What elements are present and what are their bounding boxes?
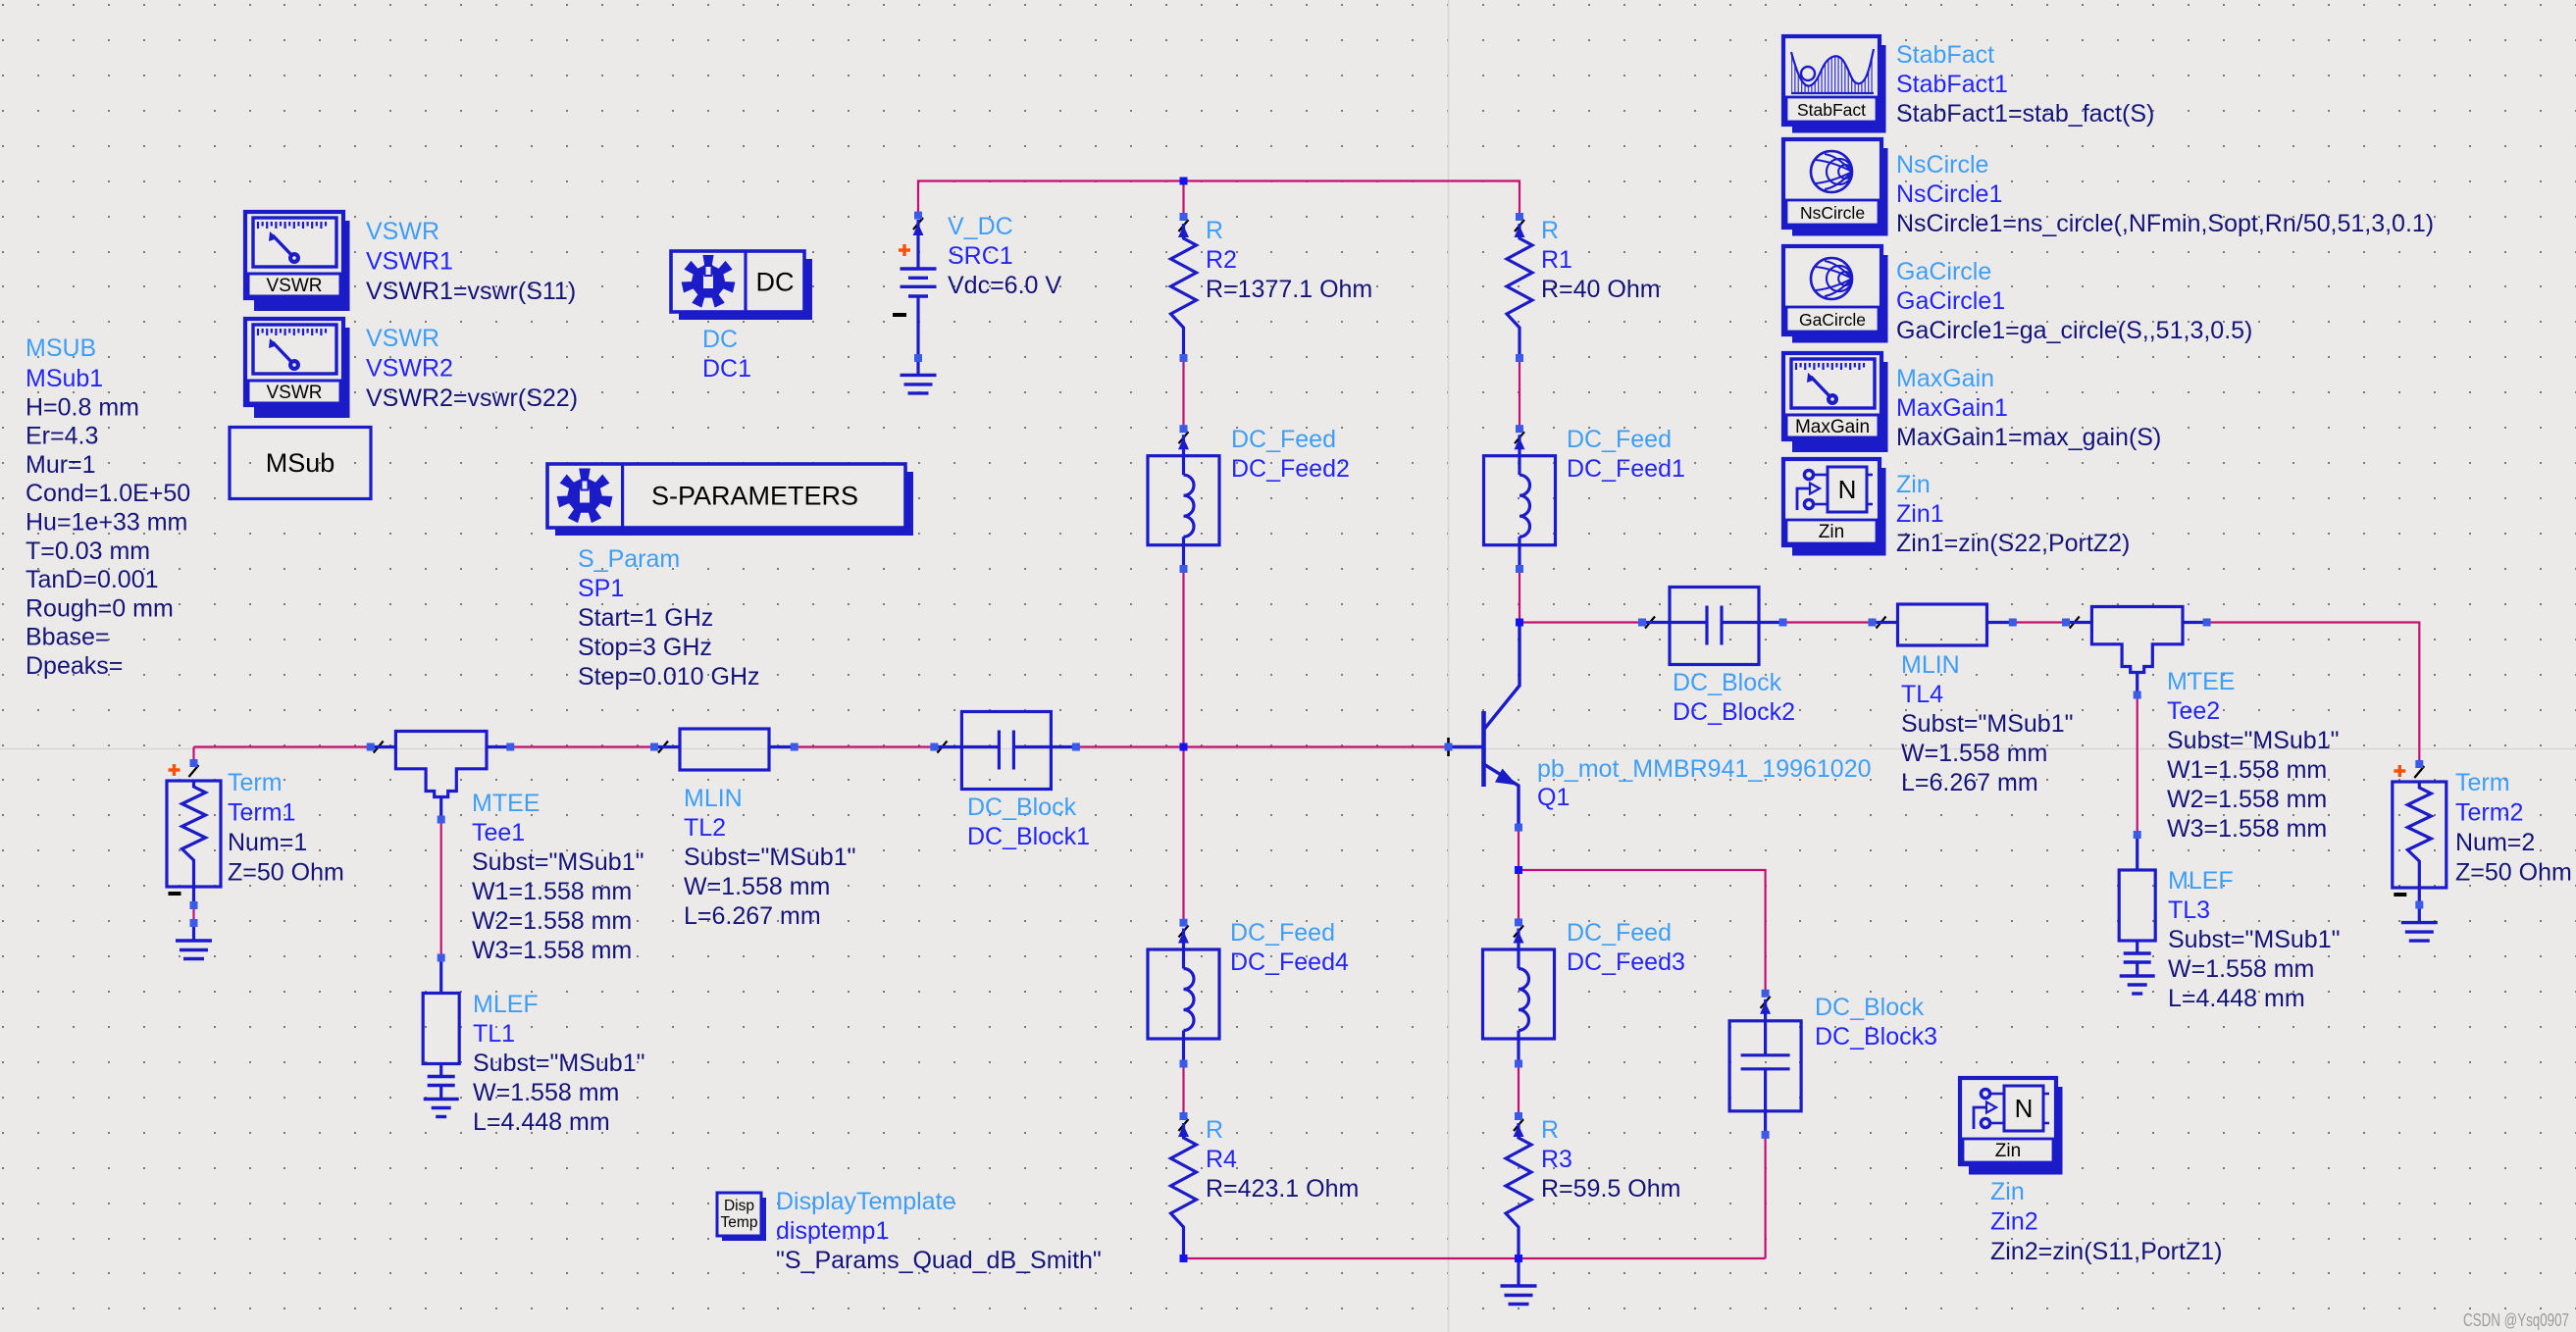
- svg-text:StabFact: StabFact: [1797, 100, 1866, 120]
- svg-text:W3=1.558 mm: W3=1.558 mm: [2167, 815, 2327, 843]
- svg-text:Vdc=6.0 V: Vdc=6.0 V: [948, 272, 1061, 299]
- svg-text:GaCircle1=ga_circle(S,,51,3,0.: GaCircle1=ga_circle(S,,51,3,0.5): [1896, 317, 2252, 344]
- svg-text:TL1: TL1: [473, 1020, 515, 1048]
- svg-text:S_Param: S_Param: [578, 545, 680, 573]
- svg-text:Subst="MSub1": Subst="MSub1": [472, 848, 644, 876]
- svg-text:VSWR1: VSWR1: [366, 248, 453, 276]
- svg-text:VSWR2: VSWR2: [366, 355, 453, 383]
- svg-text:DisplayTemplate: DisplayTemplate: [776, 1188, 955, 1215]
- svg-text:Z=50 Ohm: Z=50 Ohm: [228, 859, 344, 887]
- svg-text:N: N: [2015, 1094, 2034, 1123]
- svg-text:DC_Feed: DC_Feed: [1567, 919, 1672, 947]
- svg-text:T=0.03 mm: T=0.03 mm: [26, 538, 150, 565]
- svg-text:Subst="MSub1": Subst="MSub1": [684, 844, 856, 871]
- svg-text:CSDN @Ysq0907: CSDN @Ysq0907: [2463, 1310, 2569, 1330]
- svg-text:DC_Feed3: DC_Feed3: [1567, 948, 1685, 976]
- svg-text:Zin: Zin: [1990, 1178, 2025, 1205]
- svg-text:Start=1 GHz: Start=1 GHz: [578, 604, 713, 632]
- svg-text:W=1.558 mm: W=1.558 mm: [2168, 955, 2314, 983]
- svg-text:Er=4.3: Er=4.3: [26, 423, 98, 450]
- svg-text:W2=1.558 mm: W2=1.558 mm: [2167, 786, 2327, 813]
- svg-text:Zin1: Zin1: [1896, 500, 1944, 528]
- svg-text:S-PARAMETERS: S-PARAMETERS: [651, 482, 858, 511]
- svg-text:DC1: DC1: [702, 355, 751, 383]
- svg-text:VSWR1=vswr(S11): VSWR1=vswr(S11): [366, 278, 576, 305]
- svg-text:DC: DC: [756, 268, 795, 297]
- svg-text:Tee2: Tee2: [2167, 697, 2220, 725]
- svg-text:Cond=1.0E+50: Cond=1.0E+50: [26, 480, 190, 507]
- svg-text:Step=0.010 GHz: Step=0.010 GHz: [578, 663, 760, 691]
- svg-text:Dpeaks=: Dpeaks=: [26, 652, 123, 680]
- svg-text:Disp: Disp: [724, 1198, 754, 1214]
- svg-text:pb_mot_MMBR941_19961020: pb_mot_MMBR941_19961020: [1537, 755, 1872, 783]
- svg-text:L=4.448 mm: L=4.448 mm: [473, 1108, 610, 1136]
- svg-text:MaxGain: MaxGain: [1896, 365, 1994, 392]
- svg-text:N: N: [1838, 475, 1857, 504]
- svg-text:Term: Term: [2455, 769, 2510, 796]
- svg-text:MSub1: MSub1: [26, 365, 103, 392]
- svg-text:NsCircle: NsCircle: [1800, 203, 1865, 223]
- svg-text:VSWR: VSWR: [366, 218, 439, 245]
- svg-text:StabFact: StabFact: [1896, 41, 1994, 69]
- svg-text:TL4: TL4: [1901, 681, 1943, 708]
- svg-text:L=6.267 mm: L=6.267 mm: [1901, 769, 2038, 796]
- svg-text:TL2: TL2: [684, 814, 726, 842]
- svg-text:R=59.5 Ohm: R=59.5 Ohm: [1541, 1175, 1680, 1203]
- svg-text:MLEF: MLEF: [473, 991, 539, 1018]
- svg-text:NsCircle: NsCircle: [1896, 151, 1988, 179]
- svg-text:MSUB: MSUB: [26, 334, 96, 362]
- svg-text:DC_Feed: DC_Feed: [1567, 426, 1672, 453]
- svg-text:Subst="MSub1": Subst="MSub1": [2167, 727, 2340, 754]
- svg-text:H=0.8 mm: H=0.8 mm: [26, 393, 139, 421]
- svg-text:Term1: Term1: [228, 799, 295, 827]
- svg-text:Zin1=zin(S22,PortZ2): Zin1=zin(S22,PortZ2): [1896, 530, 2130, 557]
- svg-text:W1=1.558 mm: W1=1.558 mm: [2167, 756, 2327, 784]
- svg-text:DC_Block3: DC_Block3: [1815, 1023, 1937, 1050]
- svg-text:Zin: Zin: [1995, 1141, 2021, 1161]
- svg-text:"S_Params_Quad_dB_Smith": "S_Params_Quad_dB_Smith": [776, 1247, 1102, 1274]
- svg-text:Tee1: Tee1: [472, 819, 525, 846]
- svg-text:NsCircle1: NsCircle1: [1896, 180, 2002, 208]
- svg-text:W3=1.558 mm: W3=1.558 mm: [472, 937, 632, 964]
- svg-text:Q1: Q1: [1537, 784, 1570, 811]
- svg-text:disptemp1: disptemp1: [776, 1217, 889, 1245]
- svg-text:L=4.448 mm: L=4.448 mm: [2168, 985, 2305, 1012]
- svg-text:Num=2: Num=2: [2455, 829, 2535, 856]
- svg-text:StabFact1: StabFact1: [1896, 71, 2008, 98]
- svg-text:DC_Block: DC_Block: [967, 794, 1077, 821]
- svg-text:L=6.267 mm: L=6.267 mm: [684, 902, 821, 930]
- svg-text:Temp: Temp: [721, 1214, 758, 1231]
- svg-text:R=1377.1 Ohm: R=1377.1 Ohm: [1206, 276, 1372, 303]
- svg-text:R: R: [1206, 1116, 1223, 1144]
- svg-text:Subst="MSub1": Subst="MSub1": [1901, 710, 2074, 738]
- svg-text:R: R: [1206, 217, 1223, 244]
- svg-text:R: R: [1541, 217, 1559, 244]
- svg-text:Subst="MSub1": Subst="MSub1": [2168, 926, 2341, 953]
- svg-text:Term: Term: [228, 769, 283, 796]
- svg-text:DC_Feed: DC_Feed: [1230, 919, 1335, 947]
- svg-text:DC_Block1: DC_Block1: [967, 823, 1090, 850]
- svg-text:TanD=0.001: TanD=0.001: [26, 566, 159, 593]
- svg-text:Zin: Zin: [1819, 522, 1844, 542]
- svg-text:V_DC: V_DC: [948, 213, 1013, 240]
- svg-text:MLIN: MLIN: [684, 785, 743, 812]
- svg-text:GaCircle: GaCircle: [1896, 258, 1991, 285]
- svg-text:TL3: TL3: [2168, 897, 2210, 924]
- svg-text:DC_Feed4: DC_Feed4: [1230, 948, 1349, 976]
- svg-text:R=40 Ohm: R=40 Ohm: [1541, 276, 1661, 303]
- svg-text:W=1.558 mm: W=1.558 mm: [684, 873, 830, 900]
- svg-text:MTEE: MTEE: [2167, 668, 2235, 695]
- svg-text:Rough=0 mm: Rough=0 mm: [26, 594, 174, 622]
- svg-text:MaxGain1: MaxGain1: [1896, 394, 2008, 422]
- svg-text:Zin2: Zin2: [1990, 1208, 2038, 1236]
- svg-text:StabFact1=stab_fact(S): StabFact1=stab_fact(S): [1896, 100, 2154, 128]
- svg-text:DC_Feed1: DC_Feed1: [1567, 455, 1685, 483]
- svg-text:W=1.558 mm: W=1.558 mm: [1901, 740, 2047, 767]
- svg-text:W=1.558 mm: W=1.558 mm: [473, 1079, 619, 1106]
- svg-text:Term2: Term2: [2455, 799, 2523, 827]
- svg-text:MaxGain1=max_gain(S): MaxGain1=max_gain(S): [1896, 424, 2161, 451]
- svg-text:NsCircle1=ns_circle(,NFmin,Sop: NsCircle1=ns_circle(,NFmin,Sopt,Rn/50,51…: [1896, 210, 2434, 237]
- svg-text:R1: R1: [1541, 246, 1572, 274]
- svg-text:SP1: SP1: [578, 575, 624, 602]
- svg-text:GaCircle1: GaCircle1: [1896, 287, 2005, 315]
- svg-text:MLIN: MLIN: [1901, 651, 1960, 679]
- svg-text:VSWR: VSWR: [366, 325, 439, 352]
- svg-text:SRC1: SRC1: [948, 242, 1013, 270]
- svg-text:Subst="MSub1": Subst="MSub1": [473, 1050, 645, 1077]
- svg-text:DC_Block: DC_Block: [1815, 994, 1925, 1021]
- svg-text:DC_Block2: DC_Block2: [1673, 698, 1795, 726]
- svg-text:VSWR: VSWR: [267, 383, 323, 403]
- svg-text:W2=1.558 mm: W2=1.558 mm: [472, 907, 632, 935]
- svg-text:R3: R3: [1541, 1146, 1572, 1173]
- svg-text:Zin2=zin(S11,PortZ1): Zin2=zin(S11,PortZ1): [1990, 1238, 2222, 1265]
- svg-text:MLEF: MLEF: [2168, 867, 2234, 895]
- svg-text:MTEE: MTEE: [472, 790, 540, 817]
- svg-text:MaxGain: MaxGain: [1795, 417, 1870, 437]
- svg-text:GaCircle: GaCircle: [1799, 310, 1866, 330]
- svg-text:DC_Feed2: DC_Feed2: [1231, 455, 1350, 483]
- svg-text:R=423.1 Ohm: R=423.1 Ohm: [1206, 1175, 1359, 1203]
- svg-text:R2: R2: [1206, 246, 1237, 274]
- svg-text:Zin: Zin: [1896, 471, 1931, 498]
- svg-text:Bbase=: Bbase=: [26, 624, 110, 651]
- svg-text:W1=1.558 mm: W1=1.558 mm: [472, 878, 632, 905]
- svg-text:Hu=1e+33 mm: Hu=1e+33 mm: [26, 509, 187, 537]
- svg-text:Stop=3 GHz: Stop=3 GHz: [578, 634, 712, 661]
- svg-text:VSWR: VSWR: [267, 276, 323, 296]
- svg-text:DC: DC: [702, 326, 738, 353]
- svg-text:Num=1: Num=1: [228, 829, 307, 856]
- svg-text:Z=50 Ohm: Z=50 Ohm: [2455, 859, 2572, 887]
- svg-text:R: R: [1541, 1116, 1559, 1144]
- svg-text:R4: R4: [1206, 1146, 1237, 1173]
- svg-text:MSub: MSub: [266, 448, 335, 478]
- svg-text:VSWR2=vswr(S22): VSWR2=vswr(S22): [366, 384, 578, 412]
- svg-text:DC_Block: DC_Block: [1673, 669, 1782, 696]
- svg-text:Mur=1: Mur=1: [26, 451, 96, 479]
- svg-text:DC_Feed: DC_Feed: [1231, 426, 1336, 453]
